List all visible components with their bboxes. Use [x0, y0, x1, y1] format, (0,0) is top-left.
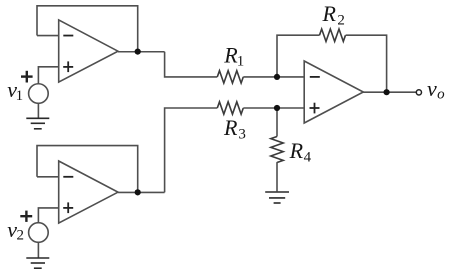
svg-text:2: 2	[337, 12, 345, 28]
svg-text:v: v	[427, 76, 437, 101]
svg-text:1: 1	[237, 54, 245, 70]
svg-text:R: R	[322, 1, 337, 26]
svg-text:1: 1	[16, 88, 24, 104]
svg-text:o: o	[437, 86, 445, 102]
svg-text:R: R	[289, 138, 304, 163]
svg-text:4: 4	[304, 149, 312, 165]
svg-text:3: 3	[238, 126, 246, 142]
svg-text:R: R	[223, 115, 238, 140]
svg-text:2: 2	[17, 227, 25, 243]
